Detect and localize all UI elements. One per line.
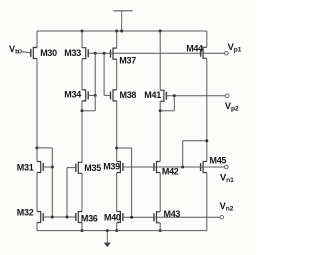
wire: branch down to M31/M32 gates <box>51 148 53 217</box>
junction: VDD stem on rail <box>120 30 123 33</box>
wire: M41 source branch <box>160 110 174 112</box>
ground symbol <box>106 231 108 243</box>
wire: M30 source node branch <box>37 147 52 149</box>
junction: M34 source node <box>81 109 84 112</box>
circuit schematic: cascode bias generator M30-M45 <box>0 0 256 255</box>
wire: M42 source to M43 drain <box>159 173 161 212</box>
svg-text:M33: M33 <box>64 48 81 58</box>
svg-text:M35: M35 <box>84 163 101 173</box>
wire: M41 gate to Vp2 <box>166 95 225 97</box>
junction: branch tap on Vn2 gate net <box>130 216 133 219</box>
junction: M35/M36 branch on gate net <box>66 216 69 219</box>
wire: M37 source to M38 drain <box>116 59 118 90</box>
svg-text:M41: M41 <box>144 90 161 100</box>
svg-text:M42: M42 <box>162 167 179 177</box>
svg-text:M39: M39 <box>103 162 120 172</box>
junction: M37 drain on rail <box>115 30 118 33</box>
transistor M42 <box>157 162 161 173</box>
junction: M41 source node <box>159 109 162 112</box>
svg-text:M44: M44 <box>186 44 203 54</box>
junction: M33 drain on rail <box>81 30 84 33</box>
wire: M31 gate lead <box>43 166 52 168</box>
wire: M43 source to ground rail <box>159 223 161 231</box>
wire: M37 drain lead <box>116 31 118 48</box>
svg-text:M30: M30 <box>40 48 57 58</box>
wire: M35 gate lead <box>67 167 76 169</box>
junction: M44 source node <box>205 139 208 142</box>
junction: M45 diode tap on Vn1 <box>181 166 184 169</box>
wire: M45 diode vertical <box>182 141 184 167</box>
node Vb terminal <box>18 50 21 53</box>
svg-text:M34: M34 <box>64 89 81 99</box>
wire: M33 drain lead <box>81 31 83 48</box>
wire: M31 source to M32 drain <box>36 173 38 212</box>
svg-text:M37: M37 <box>119 55 136 65</box>
wire: M35 gate down to M36 gate net <box>66 168 68 217</box>
wire: M30 drain to rail <box>36 31 38 48</box>
junction: v2 tap on Vp1 net <box>103 52 106 55</box>
wire: M40 gate to Vn2 net <box>123 216 220 218</box>
svg-text:M31: M31 <box>17 162 34 172</box>
node Vp2 terminal <box>226 94 230 98</box>
transistor M40 <box>117 212 121 223</box>
junction: v1 tap on Vp1 net <box>94 52 97 55</box>
svg-text:M45: M45 <box>210 156 227 166</box>
transistor M44 <box>203 47 207 58</box>
svg-text:M43: M43 <box>164 209 181 219</box>
junction: M31 gate tap <box>51 166 54 169</box>
transistor M38 <box>113 90 117 101</box>
transistor M31 <box>37 162 41 173</box>
wire: v2 to M38 gate <box>104 94 110 96</box>
junction: M38 source node <box>115 147 118 150</box>
wire: M44 source down to M45 drain <box>206 58 208 161</box>
wire: M34 source down to M35 drain <box>81 101 83 162</box>
transistor M32 <box>37 212 41 223</box>
wire: M33 source to M34 drain <box>81 59 83 90</box>
junction: M40 source on ground rail <box>115 229 118 232</box>
transistor M34 <box>82 90 86 101</box>
svg-text:M32: M32 <box>17 208 34 218</box>
wire: Vn1 net (gates M39,M42,M45) <box>123 166 224 168</box>
wire: M39 source to M40 drain <box>116 173 118 212</box>
junction: M36 source on ground rail <box>81 229 84 232</box>
transistor M39 <box>117 162 121 173</box>
wire: rail corner down to M44 drain <box>206 31 208 47</box>
wire: M38 source to M39 drain <box>116 101 118 162</box>
transistor M45 <box>203 162 207 173</box>
svg-text:M40: M40 <box>104 213 121 223</box>
junction: M43 source on ground rail <box>159 229 162 232</box>
svg-text:M38: M38 <box>120 90 137 100</box>
wire: Vp1 net (gates M33,M37,M44) <box>88 52 224 54</box>
node Vn2 terminal <box>220 215 224 219</box>
power VDD symbol <box>121 11 123 31</box>
svg-text:M36: M36 <box>81 214 98 224</box>
wire: M38 source node branch <box>117 147 132 149</box>
wire: M35 source to M36 drain <box>81 173 83 211</box>
junction: M41 diode tap <box>173 94 176 97</box>
node Vp1 terminal <box>225 51 229 55</box>
junction: ground stem on rail <box>106 229 109 232</box>
wire: M41 source to M42 drain <box>159 101 161 161</box>
wire: M40 source to ground rail <box>116 223 118 231</box>
wire: branch down to M40/M43 gate net <box>131 148 133 217</box>
wire: v2 vertical (Vp1 net to M38 gate) <box>103 53 105 95</box>
junction: M34 gate on v1 <box>94 94 97 97</box>
wire: M34 source branch <box>82 110 95 112</box>
node Vn1 terminal <box>225 165 229 169</box>
wire: M44 source node branch <box>183 140 207 142</box>
wire: M45 source to ground rail <box>206 173 208 231</box>
wire: Vb to M30 gate <box>21 52 30 53</box>
wire: v1 vertical (Vp1 net to M34 source node) <box>94 53 96 111</box>
wire: M30 source to M31 drain <box>36 59 38 162</box>
transistor M41 <box>160 90 164 101</box>
wire: VDD top rail <box>37 30 207 32</box>
junction: M31/M32 branch on gate net <box>51 216 54 219</box>
wire: M32-M36 gate net <box>43 216 76 218</box>
junction: M41 drain on rail <box>159 30 162 33</box>
wire: M32 source to ground rail <box>36 223 38 231</box>
transistor M37 <box>113 48 117 59</box>
transistor M43 <box>157 212 161 223</box>
transistor M33 <box>82 48 86 59</box>
wire: ground bottom rail <box>37 230 207 232</box>
transistor M30 <box>33 48 37 59</box>
transistor M36 <box>78 212 82 223</box>
transistor M35 <box>78 162 82 173</box>
junction: node at M30 source branch <box>36 146 39 149</box>
wire: M36 source to ground rail <box>81 223 83 231</box>
wire: M41 drain lead <box>159 31 161 90</box>
wire: M41 diode vertical <box>173 96 175 111</box>
wire: M34 gate lead <box>88 94 95 96</box>
